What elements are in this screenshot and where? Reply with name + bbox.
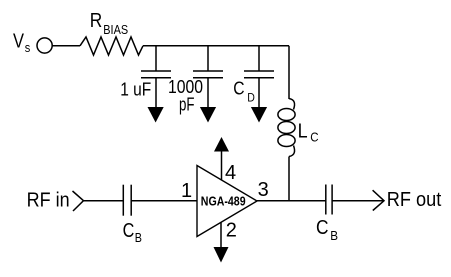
pin 4 arrow xyxy=(221,152,223,181)
resistor R_BIAS xyxy=(80,37,143,55)
label 1000 pF xyxy=(168,77,203,114)
op-amp U1 NGA-489 xyxy=(197,166,257,237)
capacitor C1 1uF xyxy=(141,46,171,108)
svg-text:RF in: RF in xyxy=(27,189,70,211)
svg-text:V: V xyxy=(13,30,25,52)
svg-text:NGA-489: NGA-489 xyxy=(201,194,246,209)
capacitor CD xyxy=(244,46,274,108)
wire xyxy=(52,45,80,47)
wire xyxy=(288,157,290,201)
wire xyxy=(257,200,326,202)
svg-text:4: 4 xyxy=(225,162,236,184)
wire xyxy=(288,46,290,99)
svg-text:1: 1 xyxy=(181,180,192,202)
svg-text:C: C xyxy=(316,217,329,239)
label R_BIAS xyxy=(90,10,128,37)
ground xyxy=(148,107,164,123)
svg-text:L: L xyxy=(298,121,308,143)
svg-text:s: s xyxy=(25,40,31,55)
label CD xyxy=(233,78,255,104)
svg-text:C: C xyxy=(123,220,135,242)
wire xyxy=(143,45,289,47)
label Vs xyxy=(13,30,31,55)
inductor LC xyxy=(278,99,295,157)
arrow RF in xyxy=(73,191,84,211)
label LC xyxy=(298,121,319,145)
capacitor C2 1000pF xyxy=(193,46,223,108)
svg-text:2: 2 xyxy=(226,219,237,241)
ground xyxy=(251,107,267,123)
label CB output xyxy=(316,217,338,243)
ground xyxy=(200,107,216,123)
label CB input xyxy=(123,220,142,245)
wire xyxy=(332,200,384,202)
terminal Vs xyxy=(37,38,52,53)
svg-text:3: 3 xyxy=(258,179,269,201)
svg-text:R: R xyxy=(90,10,103,32)
svg-text:D: D xyxy=(247,92,255,104)
svg-text:BIAS: BIAS xyxy=(103,23,128,37)
svg-text:C: C xyxy=(310,131,318,145)
svg-text:C: C xyxy=(233,78,244,98)
svg-text:pF: pF xyxy=(179,94,195,114)
capacitor CB output xyxy=(326,185,332,215)
svg-text:B: B xyxy=(330,229,338,243)
svg-text:B: B xyxy=(135,231,142,245)
arrow RF out xyxy=(373,190,384,210)
pin 2 arrow xyxy=(220,222,222,248)
wire xyxy=(131,200,197,202)
svg-text:RF out: RF out xyxy=(387,189,442,211)
wire xyxy=(84,200,124,202)
svg-text:1 uF: 1 uF xyxy=(120,80,151,100)
capacitor CB input xyxy=(123,185,131,216)
